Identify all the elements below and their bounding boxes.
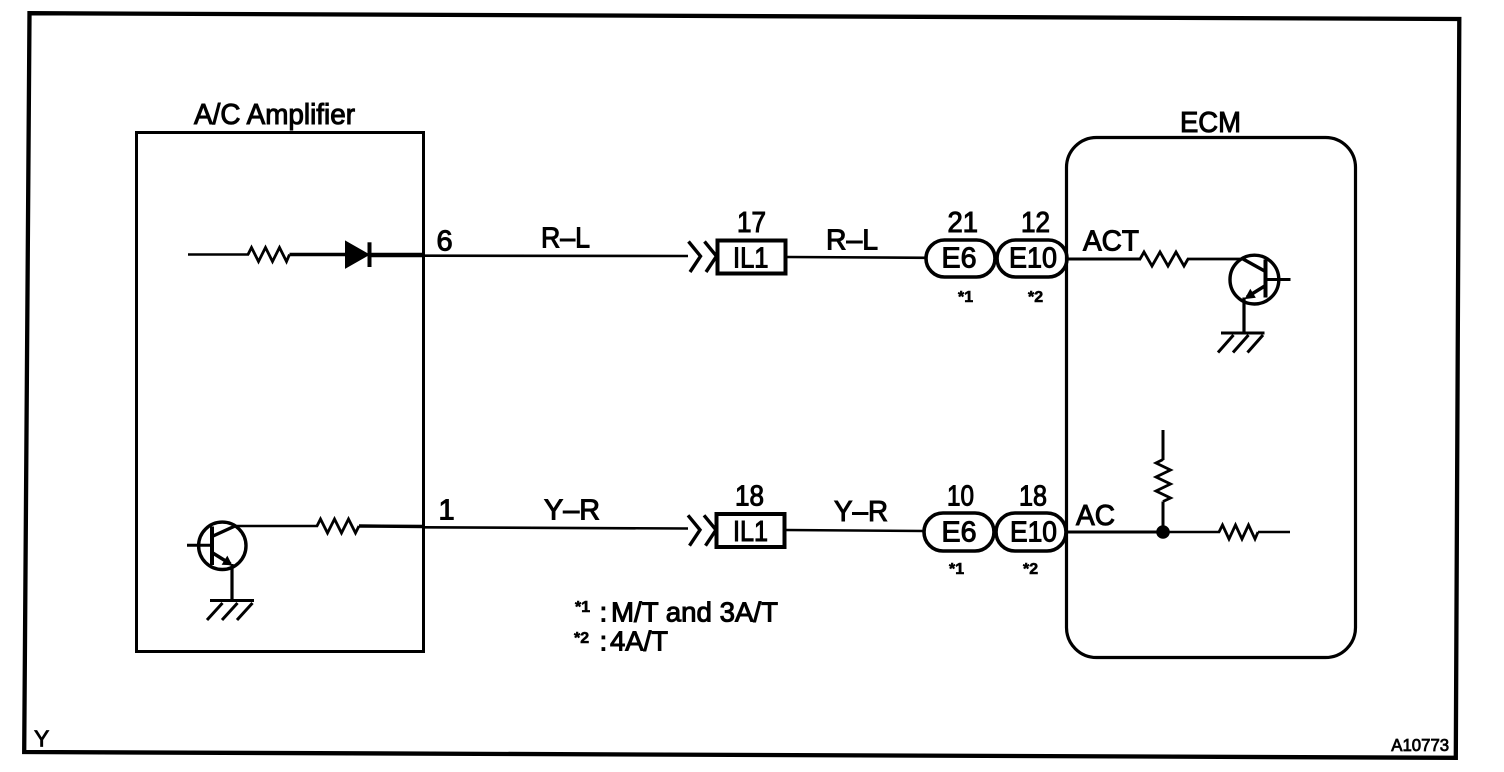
svg-text:E10: E10 [1009, 243, 1057, 275]
svg-text:18: 18 [1019, 481, 1047, 513]
wire [290, 253, 347, 257]
wire [1258, 531, 1290, 534]
svg-text:E6: E6 [942, 517, 977, 549]
wire AC [1066, 531, 1157, 534]
connector chevrons (bottom) [688, 515, 716, 545]
transistor Q1 (ECM, ACT) [1230, 255, 1291, 304]
wire [359, 524, 424, 528]
connector E10 pin 18 [996, 481, 1066, 579]
svg-text:R–L: R–L [541, 223, 590, 255]
wire [424, 254, 688, 257]
connector chevrons (top) [689, 242, 717, 273]
svg-text:R–L: R–L [826, 225, 878, 257]
wire (emitter to ground) [1242, 298, 1245, 334]
wire [787, 256, 927, 259]
footnote *2 [574, 626, 668, 657]
svg-text:Y–R: Y–R [544, 495, 600, 527]
svg-text:*2: *2 [1028, 289, 1043, 306]
svg-text:Y–R: Y–R [834, 496, 888, 528]
svg-text:ACT: ACT [1083, 226, 1139, 258]
svg-text:10: 10 [947, 481, 974, 513]
wire [371, 253, 424, 258]
connector E6 pin 21 [926, 207, 995, 306]
svg-text:18: 18 [735, 481, 764, 513]
wire [785, 530, 925, 531]
ground (A/C amplifier transistor) [207, 601, 254, 621]
connector E10 pin 12 [997, 207, 1067, 306]
svg-text:A/C Amplifier: A/C Amplifier [194, 99, 355, 131]
svg-text:21: 21 [948, 207, 979, 239]
wire (emitter to ground) [230, 564, 233, 600]
connector E6 pin 10 [924, 481, 994, 579]
wire (pull-up stub) [1162, 430, 1165, 460]
wire [1169, 531, 1220, 534]
svg-text:E6: E6 [942, 243, 977, 275]
junction block IL1 (top), pin 17 [718, 207, 786, 275]
A/C Amplifier block [137, 99, 424, 652]
resistor R2 (ECM, ACT line) [1140, 252, 1188, 266]
transistor Q2 (A/C amplifier, Y-R line) [187, 522, 246, 569]
svg-text:Y: Y [34, 726, 49, 752]
svg-text:*1: *1 [575, 599, 590, 616]
svg-text:*1: *1 [958, 289, 973, 306]
resistor R3 (A/C amplifier, Y-R line) [317, 519, 359, 533]
svg-text:IL1: IL1 [733, 516, 768, 548]
svg-text:1: 1 [439, 495, 455, 527]
svg-text:E10: E10 [1010, 517, 1057, 549]
svg-text:6: 6 [437, 226, 453, 258]
svg-text::: : [600, 597, 608, 628]
svg-text:AC: AC [1076, 500, 1115, 532]
ground (ECM transistor) [1218, 333, 1265, 353]
svg-text:4A/T: 4A/T [610, 626, 668, 657]
wire [424, 527, 688, 528]
resistor R4 (ECM pull-up, vertical) [1156, 460, 1171, 502]
svg-text:ECM: ECM [1180, 107, 1241, 139]
wire ACT [1067, 258, 1141, 261]
ECM block [1067, 107, 1356, 658]
svg-text:IL1: IL1 [733, 243, 769, 275]
wire [1162, 502, 1165, 528]
node (junction dot) [1156, 525, 1170, 539]
wire [188, 253, 249, 256]
svg-text:17: 17 [737, 207, 766, 239]
svg-text:*1: *1 [949, 561, 964, 578]
footnote *1 [575, 597, 778, 628]
wire [1187, 258, 1244, 261]
diode D1 [346, 241, 370, 268]
svg-text:A10773: A10773 [1391, 735, 1449, 755]
resistor R5 (ECM, AC line) [1219, 525, 1258, 539]
junction block IL1 (bottom), pin 18 [717, 481, 785, 549]
svg-text:12: 12 [1021, 207, 1050, 239]
svg-text:*2: *2 [574, 630, 589, 647]
wire [234, 525, 318, 528]
svg-text:*2: *2 [1023, 561, 1038, 578]
svg-text:M/T and 3A/T: M/T and 3A/T [611, 597, 778, 628]
resistor R1 (A/C amplifier, R-L line) [248, 248, 290, 262]
svg-text::: : [600, 626, 608, 657]
